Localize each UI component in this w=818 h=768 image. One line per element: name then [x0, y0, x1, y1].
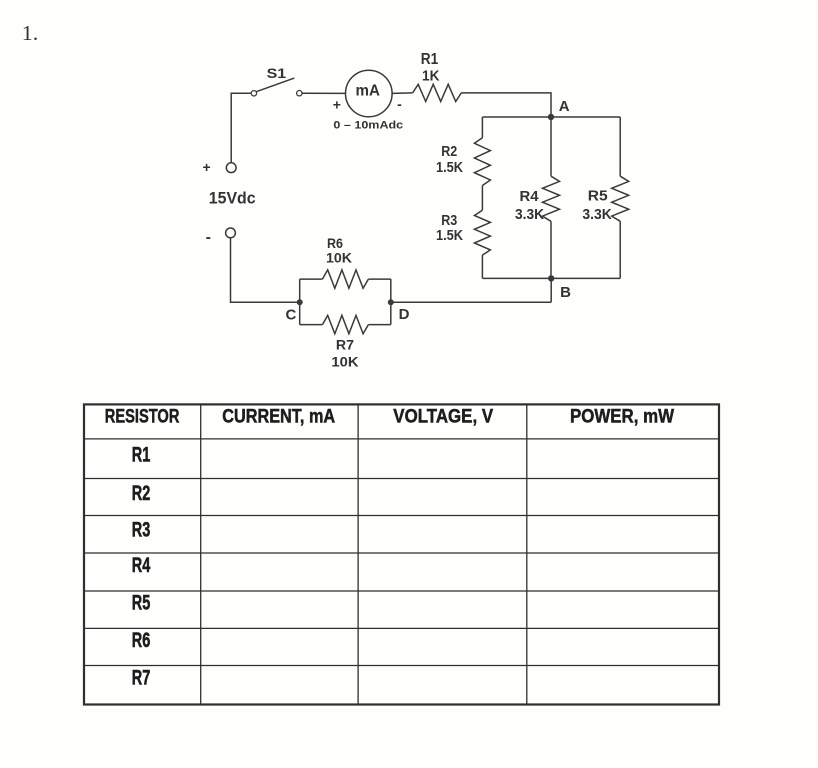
resistor R5 — [582, 176, 628, 223]
svg-text:R1: R1 — [132, 444, 151, 467]
svg-text:R5: R5 — [132, 592, 151, 615]
svg-text:VOLTAGE, V: VOLTAGE, V — [393, 406, 493, 428]
resistor R6 — [300, 235, 391, 288]
ammeter mA meter — [346, 70, 393, 117]
wire right junction of R6 R7 parallel pair — [390, 279, 392, 325]
svg-text:3.3K: 3.3K — [582, 206, 612, 223]
wire node B down to bottom return — [550, 278, 552, 302]
wire switch to ammeter — [302, 92, 346, 94]
svg-text:10K: 10K — [331, 354, 358, 369]
svg-text:C: C — [285, 306, 296, 323]
wire resistor R1 to node A — [461, 93, 551, 117]
resistor R3 — [436, 210, 490, 255]
svg-text:R1: R1 — [421, 51, 439, 68]
voltage source positive terminal — [226, 163, 236, 173]
svg-text:-: - — [397, 96, 402, 112]
svg-text:1K: 1K — [422, 67, 440, 84]
svg-text:POWER, mW: POWER, mW — [570, 406, 675, 428]
resistor R1 — [413, 51, 462, 102]
svg-text:B: B — [560, 284, 571, 301]
wire ammeter to resistor R1 — [392, 92, 412, 95]
svg-text:A: A — [559, 98, 570, 115]
svg-text:+: + — [333, 97, 341, 113]
wire battery positive to switch S1 — [231, 93, 251, 163]
resistor R4 — [515, 176, 560, 223]
svg-text:R3: R3 — [132, 519, 151, 542]
node C — [285, 299, 302, 323]
wire top rail to resistor R5 — [619, 117, 621, 176]
svg-text:-: - — [206, 229, 211, 246]
wire resistor R4 to node B — [550, 221, 552, 278]
wire bottom rail node B — [482, 277, 620, 279]
svg-text:3.3K: 3.3K — [515, 206, 544, 223]
svg-text:RESISTOR: RESISTOR — [105, 406, 180, 428]
svg-text:R2: R2 — [132, 482, 151, 505]
svg-text:mA: mA — [356, 83, 381, 100]
svg-text:10K: 10K — [326, 250, 352, 266]
switch S1 — [251, 66, 302, 96]
results table grid — [84, 404, 719, 704]
svg-text:0 – 10mAdc: 0 – 10mAdc — [333, 119, 403, 131]
svg-text:R7: R7 — [336, 338, 354, 353]
node A — [548, 98, 570, 120]
voltage source negative terminal — [226, 228, 236, 238]
svg-text:1.5K: 1.5K — [436, 159, 463, 176]
wire resistor R2 to resistor R3 — [481, 186, 483, 211]
wire left junction of R6 R7 parallel pair — [299, 279, 301, 325]
svg-text:CURRENT, mA: CURRENT, mA — [222, 406, 335, 428]
svg-text:1.5K: 1.5K — [436, 227, 463, 244]
svg-text:R4: R4 — [132, 554, 151, 577]
svg-text:1.: 1. — [22, 21, 39, 45]
wire battery negative to node C — [231, 238, 300, 302]
svg-text:R6: R6 — [132, 629, 151, 652]
svg-text:R4: R4 — [520, 188, 540, 205]
resistor R2 — [436, 138, 490, 186]
svg-text:S1: S1 — [267, 66, 287, 81]
wire node A to resistor R4 — [550, 117, 552, 176]
wire resistor R3 to bottom rail — [481, 255, 483, 278]
svg-text:R5: R5 — [588, 187, 608, 204]
node D — [388, 299, 410, 323]
svg-text:D: D — [399, 306, 410, 323]
svg-text:15Vdc: 15Vdc — [209, 188, 256, 207]
resistor R7 — [300, 315, 391, 369]
wire top rail to resistor R2 — [481, 117, 483, 138]
node B — [548, 275, 571, 301]
svg-text:+: + — [203, 159, 211, 175]
svg-text:R2: R2 — [441, 143, 457, 160]
wire node D to node B return — [391, 301, 551, 303]
wire resistor R5 to bottom rail — [619, 221, 621, 278]
svg-text:R7: R7 — [132, 666, 151, 689]
wire top rail node A — [482, 116, 620, 118]
